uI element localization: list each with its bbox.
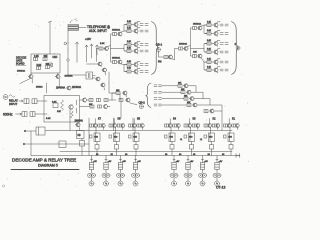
svg-text:K7: K7 bbox=[98, 118, 102, 121]
leaf cell B4 bbox=[205, 49, 228, 55]
label C4 script bbox=[70, 19, 78, 23]
capacitor C4 box bbox=[30, 112, 35, 117]
brace tree A bbox=[152, 22, 159, 75]
contact stack 1 bbox=[88, 156, 96, 187]
mid B2 transistor bbox=[197, 54, 202, 58]
leaf cell B2 bbox=[205, 30, 228, 36]
wire into gate board top bbox=[48, 21, 51, 54]
darker flecks bbox=[3, 4, 225, 181]
label DECODE GATE BOARD bbox=[16, 57, 27, 66]
driver A resistor bbox=[99, 47, 103, 50]
transistor Q1 2N404A bbox=[28, 75, 33, 79]
driver A transistor bbox=[104, 47, 109, 51]
svg-text:2N404A: 2N404A bbox=[56, 87, 65, 90]
leaf labels A bbox=[127, 21, 132, 70]
svg-text:600Hz: 600Hz bbox=[3, 113, 13, 117]
svg-text:2N404A: 2N404A bbox=[17, 70, 25, 73]
svg-text:K6: K6 bbox=[118, 118, 122, 121]
svg-text:+10V: +10V bbox=[85, 38, 91, 41]
relay driver column 3 bbox=[129, 119, 145, 156]
K8 box bbox=[77, 131, 85, 139]
svg-text:+6V: +6V bbox=[137, 161, 141, 163]
K8 wires bbox=[79, 127, 82, 156]
arrow into filter row 1 bbox=[19, 100, 23, 102]
filter board interior bbox=[46, 100, 77, 120]
K8 lower box bbox=[80, 141, 85, 147]
svg-text:610: 610 bbox=[229, 137, 233, 139]
tree B first split bbox=[187, 28, 204, 56]
relay driver column 5 bbox=[184, 119, 200, 156]
wires from gate transistors bbox=[20, 73, 59, 87]
relay driver column 7 bbox=[224, 119, 240, 156]
svg-text:+6V: +6V bbox=[176, 161, 180, 163]
svg-text:K4: K4 bbox=[173, 118, 177, 121]
leaf cell A3 bbox=[125, 41, 148, 47]
wire QB-1 to tree B bbox=[159, 52, 165, 58]
chain right of board row 2 bbox=[80, 104, 111, 109]
coupling cap box bbox=[86, 72, 93, 79]
capacitor C2 box bbox=[32, 99, 37, 104]
label TELEPHONE AUX INPUT bbox=[79, 25, 111, 33]
svg-text:+6V: +6V bbox=[190, 161, 194, 163]
svg-text:610: 610 bbox=[134, 137, 138, 139]
contact stack 7 bbox=[199, 156, 207, 187]
svg-text:2N404A: 2N404A bbox=[75, 120, 84, 123]
svg-text:610: 610 bbox=[189, 137, 193, 139]
contact stack 8 bbox=[213, 156, 221, 187]
label receiver input bbox=[9, 99, 18, 106]
svg-text:UNF: UNF bbox=[53, 57, 58, 59]
connector QB-2 bbox=[140, 105, 144, 109]
leaf cell A1 bbox=[125, 21, 148, 27]
contact stack 6 bbox=[184, 156, 192, 187]
relay driver column 1 bbox=[90, 119, 106, 156]
decode gate board box bbox=[31, 54, 60, 73]
svg-text:5.6K: 5.6K bbox=[207, 21, 212, 23]
transistor Q8 bbox=[66, 86, 71, 90]
input connector J1 bbox=[3, 95, 15, 100]
svg-text:5.6K: 5.6K bbox=[100, 43, 105, 45]
amp wires bbox=[87, 49, 106, 79]
svg-text:BOARD: BOARD bbox=[16, 63, 25, 66]
bus3 right diode bbox=[236, 154, 240, 158]
svg-text:L1: L1 bbox=[200, 139, 203, 141]
svg-text:2N404: 2N404 bbox=[36, 87, 43, 89]
svg-text:5.6K: 5.6K bbox=[46, 118, 51, 120]
junction ring node B bbox=[67, 59, 69, 61]
filter board box bbox=[44, 96, 80, 123]
transistor Q2 2N404A bbox=[55, 75, 60, 79]
driver cell C1 transistor bbox=[122, 91, 127, 95]
supply arrow gate bbox=[76, 42, 79, 62]
transistor Q4 bbox=[102, 68, 107, 72]
svg-text:+6V: +6V bbox=[219, 161, 223, 163]
svg-text:+6V: +6V bbox=[204, 161, 208, 163]
svg-text:10K: 10K bbox=[193, 52, 197, 54]
leaf cell A4 bbox=[125, 48, 148, 54]
contact labels bbox=[93, 161, 223, 163]
svg-text:PN: PN bbox=[158, 61, 162, 64]
left mid bus bbox=[24, 143, 89, 145]
chain right of board row 1 bbox=[80, 93, 117, 102]
driver cell C1 resistor bbox=[116, 92, 120, 95]
wire tel line to amp bbox=[68, 74, 86, 76]
svg-text:5.6K: 5.6K bbox=[127, 21, 132, 23]
mid B2 resistor bbox=[193, 55, 197, 58]
mid B1 resistor bbox=[193, 27, 197, 30]
svg-text:2N404A: 2N404A bbox=[112, 29, 120, 32]
leaf cell B1 bbox=[205, 22, 228, 28]
mid A1 transistor bbox=[117, 32, 122, 36]
arrow into filter row 2 bbox=[16, 113, 22, 115]
row 3 wire and cell bbox=[162, 98, 184, 100]
supply arrows above amp bbox=[85, 44, 99, 62]
feeder verticals bbox=[114, 118, 134, 131]
bus labels bbox=[96, 154, 225, 156]
driver B resistor bbox=[179, 47, 183, 50]
svg-text:2N404A: 2N404A bbox=[193, 23, 201, 26]
driver B transistor bbox=[183, 47, 188, 51]
row 1 wire and cell bbox=[162, 85, 178, 87]
relay driver column 6 bbox=[204, 119, 220, 156]
bus line 3 bbox=[31, 155, 240, 157]
telephone input transformer box bbox=[68, 25, 79, 31]
svg-text:610: 610 bbox=[209, 137, 213, 139]
driver cell C2 resistor bbox=[119, 99, 123, 102]
svg-text:2N404A: 2N404A bbox=[112, 57, 120, 60]
brace QB-2 bbox=[146, 83, 151, 108]
tree A first split bbox=[108, 34, 124, 62]
connector 2 bbox=[236, 46, 240, 50]
svg-text:K5: K5 bbox=[137, 118, 141, 121]
svg-text:610: 610 bbox=[95, 137, 99, 139]
left grid vertical bbox=[88, 118, 90, 156]
coupling cell to tree B bbox=[164, 49, 178, 61]
transistor Q5 bbox=[95, 77, 100, 81]
driver cell C2 transistor bbox=[125, 98, 130, 102]
coil value labels bbox=[95, 137, 233, 142]
wire row1 to board bbox=[37, 100, 47, 102]
svg-text:K2: K2 bbox=[213, 118, 217, 121]
board exit vertical bbox=[69, 110, 71, 131]
wire row2 to board bbox=[35, 113, 47, 115]
wire from telephone box down bbox=[67, 31, 69, 76]
row 4 wire and cell bbox=[162, 104, 187, 106]
svg-text:QB-1: QB-1 bbox=[156, 43, 163, 47]
left mid bus box bbox=[59, 141, 66, 148]
long signal wire down to distribution bbox=[104, 72, 116, 93]
contact stack 3 bbox=[117, 156, 125, 187]
left mid bus terminal bbox=[23, 143, 25, 145]
relay driver column 2 bbox=[109, 119, 125, 156]
svg-text:610: 610 bbox=[114, 137, 118, 139]
svg-text:5.6K: 5.6K bbox=[207, 40, 212, 42]
relay driver column 4 bbox=[165, 119, 181, 156]
row 2 wire and cell bbox=[162, 91, 181, 93]
gate board internal parts bbox=[34, 58, 53, 70]
svg-text:10K: 10K bbox=[57, 111, 61, 113]
mid A2 resistor bbox=[113, 61, 117, 64]
bus 3 left riser bbox=[30, 131, 32, 156]
svg-text:+6V: +6V bbox=[108, 161, 112, 163]
row pin marks bbox=[154, 85, 162, 106]
svg-text:QB-2: QB-2 bbox=[139, 101, 146, 105]
mid B1 transistor bbox=[197, 26, 202, 30]
capacitor C3 box bbox=[22, 112, 27, 117]
svg-text:L1: L1 bbox=[180, 139, 183, 141]
svg-text:INPUT: INPUT bbox=[9, 102, 18, 106]
svg-text:5.6K: 5.6K bbox=[207, 48, 212, 50]
svg-text:5.6K: 5.6K bbox=[207, 58, 212, 60]
transistor Q3 bbox=[97, 62, 102, 66]
leaf labels B bbox=[207, 21, 212, 68]
capacitor C1 box bbox=[24, 99, 29, 104]
svg-text:K3: K3 bbox=[193, 118, 197, 121]
transistor Q6 bbox=[100, 83, 105, 87]
bus line 2 bbox=[60, 151, 232, 153]
gate board internal labels bbox=[34, 56, 58, 67]
mid A1 resistor bbox=[113, 33, 117, 36]
connector QB-1 bbox=[157, 48, 161, 52]
svg-text:5.6K: 5.6K bbox=[207, 66, 212, 68]
lower coupling cell bbox=[204, 109, 222, 113]
junction ring node A bbox=[64, 42, 67, 45]
svg-text:+6V: +6V bbox=[93, 161, 97, 163]
title underline bbox=[11, 169, 79, 171]
svg-text:5.6K: 5.6K bbox=[127, 27, 132, 29]
transistor Q7 bbox=[75, 123, 80, 127]
contact stack 5 bbox=[170, 156, 178, 187]
contact stack 2 bbox=[102, 156, 110, 187]
corner mark bbox=[2, 185, 4, 187]
svg-text:AUX. INPUT: AUX. INPUT bbox=[89, 29, 107, 33]
svg-text:K8: K8 bbox=[78, 134, 82, 137]
leaf cell A2 bbox=[125, 28, 148, 34]
leaf cell A6 bbox=[125, 68, 148, 74]
leaf cell B6 bbox=[205, 67, 228, 73]
paper speckle noise bbox=[7, 2, 249, 187]
svg-text:610: 610 bbox=[170, 137, 174, 139]
leaf cell B5 bbox=[205, 59, 228, 65]
bus line 1 bbox=[45, 130, 232, 133]
svg-text:DECODE AMP & RELAY TREE: DECODE AMP & RELAY TREE bbox=[12, 158, 76, 163]
mid A2 transistor bbox=[117, 60, 122, 64]
bus line 1 left terminal bbox=[24, 127, 45, 135]
svg-text:2N404A: 2N404A bbox=[179, 43, 187, 46]
svg-text:DIAGRAM 5: DIAGRAM 5 bbox=[38, 164, 58, 168]
svg-text:5.6K: 5.6K bbox=[127, 67, 132, 69]
tree A pair splits bbox=[121, 25, 127, 72]
leaf cell A5 bbox=[125, 61, 148, 67]
svg-text:5.6K: 5.6K bbox=[127, 47, 132, 49]
tree B pair splits bbox=[201, 25, 207, 70]
svg-text:5.6K: 5.6K bbox=[207, 30, 212, 32]
leaf cell B3 bbox=[205, 40, 228, 46]
wires to QB-2 bbox=[120, 93, 137, 118]
row cell labels bbox=[178, 83, 191, 104]
svg-text:+6V: +6V bbox=[122, 161, 126, 163]
contact stack 4 bbox=[132, 156, 140, 187]
svg-text:OT-13: OT-13 bbox=[216, 186, 226, 190]
svg-text:2N404A: 2N404A bbox=[72, 86, 81, 89]
svg-text:5.6K: 5.6K bbox=[127, 61, 132, 63]
svg-text:K1: K1 bbox=[232, 118, 236, 121]
wire gate to filter board bbox=[46, 83, 48, 93]
svg-text:5.6K: 5.6K bbox=[127, 41, 132, 43]
brace tree B bbox=[232, 22, 239, 75]
